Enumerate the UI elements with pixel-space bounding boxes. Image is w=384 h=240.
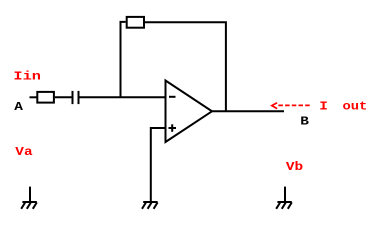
svg-text:B: B bbox=[300, 114, 309, 128]
svg-text:out: out bbox=[343, 99, 368, 113]
op-amp non-inverting input marker (+) bbox=[169, 124, 177, 132]
svg-text:Vb: Vb bbox=[286, 160, 303, 174]
label I out: text I bbox=[319, 100, 328, 114]
node B bbox=[300, 114, 309, 128]
ground (op-amp non-inverting input) bbox=[142, 202, 158, 209]
node A bbox=[14, 100, 23, 114]
capacitor C1 bbox=[73, 91, 79, 104]
wire: input stub from node A bbox=[30, 96, 37, 98]
wire: R1 to C1 bbox=[55, 96, 72, 98]
label Vb bbox=[286, 160, 303, 174]
op-amp U1 bbox=[166, 81, 213, 143]
label I out: dashed arrow line bbox=[278, 104, 310, 106]
resistor R2 (feedback) bbox=[127, 17, 144, 28]
label I out: text out bbox=[343, 99, 368, 113]
wire: non-inverting input to ground bbox=[151, 128, 166, 202]
op-amp inverting input marker (-) bbox=[169, 96, 176, 98]
svg-text:I: I bbox=[319, 100, 328, 114]
ground (under node B) bbox=[276, 187, 292, 209]
wire: feedback tap (vertical from input node up to R2) bbox=[121, 22, 126, 97]
wire: R2 to output node (top run and right vertical) bbox=[145, 22, 226, 111]
label Iin bbox=[13, 70, 41, 84]
svg-text:Iin: Iin bbox=[13, 70, 41, 84]
label I out: arrowhead bbox=[272, 103, 277, 109]
resistor R1 (input series) bbox=[37, 92, 54, 103]
svg-text:Va: Va bbox=[15, 145, 32, 159]
svg-text:A: A bbox=[14, 100, 23, 114]
wire: C1 to op-amp inverting input bbox=[80, 96, 166, 98]
wire: output bbox=[212, 110, 284, 112]
label Va bbox=[15, 145, 32, 159]
ground (under node A) bbox=[21, 187, 37, 209]
